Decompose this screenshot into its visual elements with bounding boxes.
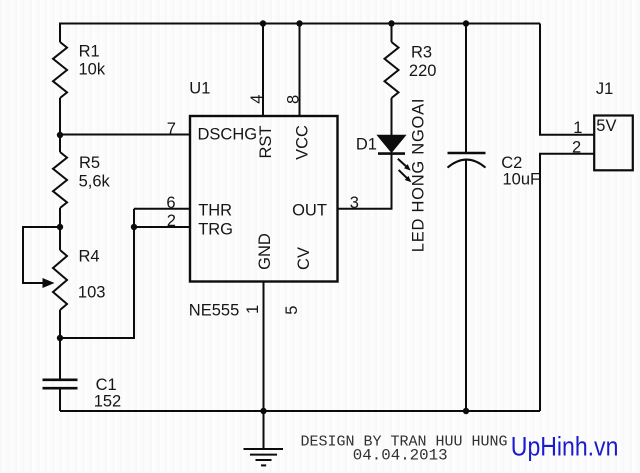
svg-text:R5: R5	[79, 154, 100, 172]
watermark UpHinh.vn	[511, 433, 619, 462]
label R5	[79, 154, 100, 172]
value 10k	[79, 60, 106, 78]
label U1	[189, 80, 210, 98]
pin name TRG	[198, 221, 233, 239]
wire THR stub pin 6	[134, 208, 190, 210]
svg-text:2: 2	[167, 212, 176, 230]
wire top rail VCC net	[60, 23, 540, 25]
label R3	[411, 43, 432, 61]
pin name OUT	[292, 202, 327, 220]
capacitor C1	[43, 380, 78, 388]
pin name DSCHG	[198, 126, 258, 144]
ground symbol stem	[263, 411, 265, 449]
svg-text:NE555: NE555	[189, 302, 239, 320]
node B junction dot wiper	[57, 224, 63, 230]
wire TRG stub pin 2	[134, 226, 190, 228]
svg-text:RST: RST	[257, 126, 275, 159]
svg-text:GND: GND	[256, 233, 274, 270]
wire C1 to bottom rail	[59, 388, 61, 411]
wire node C to TRG vertical	[60, 209, 134, 338]
svg-text:8: 8	[284, 95, 302, 104]
svg-text:3: 3	[350, 194, 359, 212]
pin number 2	[167, 212, 176, 230]
junction dot top rail R3	[388, 20, 394, 26]
wire VCC pin 8 vertical	[299, 24, 301, 117]
wire R3 to D1	[391, 98, 393, 136]
svg-text:C2: C2	[501, 154, 522, 172]
value 103	[78, 283, 106, 301]
pin name THR	[198, 201, 232, 219]
svg-text:C1: C1	[96, 376, 117, 394]
svg-text:VCC: VCC	[294, 125, 312, 160]
part name NE555	[189, 302, 239, 320]
svg-text:OUT: OUT	[292, 202, 327, 220]
wire R3 top	[391, 24, 393, 43]
caption date 04.04.2013	[353, 447, 448, 465]
svg-text:5V: 5V	[596, 117, 616, 135]
pin number 5 rotated	[283, 306, 301, 315]
capacitor C2 top plate	[448, 152, 486, 155]
svg-text:103: 103	[78, 283, 106, 301]
svg-text:1: 1	[573, 119, 582, 137]
svg-text:U1: U1	[189, 80, 210, 98]
op-amp U1 NE555 body rectangle	[190, 116, 338, 282]
ground symbol bars	[244, 449, 284, 465]
pin name VCC rotated	[294, 125, 312, 160]
svg-text:10k: 10k	[79, 60, 106, 78]
wire C2 branch top	[465, 24, 467, 153]
wire node A to pin7 DSCHG	[60, 134, 190, 136]
svg-text:DSCHG: DSCHG	[198, 126, 258, 144]
junction dot bottom rail GND pin	[260, 408, 266, 414]
pin number 2 J1	[572, 138, 581, 156]
pin number 4 rotated	[248, 95, 266, 104]
svg-text:THR: THR	[198, 201, 232, 219]
wire OUT pin 3 to LED	[338, 154, 392, 209]
pin name CV rotated	[295, 247, 313, 270]
svg-text:TRG: TRG	[198, 221, 233, 239]
svg-text:2: 2	[572, 138, 581, 156]
svg-text:04.04.2013: 04.04.2013	[353, 447, 448, 465]
resistor R3	[385, 42, 399, 98]
svg-text:4: 4	[248, 95, 266, 104]
node A junction dot DSCHG	[57, 132, 63, 138]
pin number 7	[167, 120, 176, 138]
svg-text:5: 5	[283, 306, 301, 315]
pin number 6	[166, 194, 175, 212]
svg-text:10uF: 10uF	[503, 170, 541, 188]
label C2	[501, 154, 522, 172]
wire J1 pin1 from top rail	[540, 24, 594, 135]
wire C2 to bottom rail	[465, 160, 467, 411]
svg-text:D1: D1	[356, 136, 377, 154]
diode D1 cathode bar	[378, 152, 405, 155]
svg-text:UpHinh.vn: UpHinh.vn	[511, 433, 619, 462]
wire left rail top segment	[59, 23, 61, 43]
label C1	[96, 376, 117, 394]
wire bottom rail GND net	[60, 410, 540, 412]
pin number 8 rotated	[284, 95, 302, 104]
pin name GND rotated	[256, 233, 274, 270]
svg-text:152: 152	[94, 393, 122, 411]
wire pot wiper loop	[23, 227, 60, 283]
wire RST pin 4 vertical	[262, 24, 264, 117]
label D1	[356, 136, 377, 154]
pin number 1 rotated	[244, 305, 262, 314]
pin name RST rotated	[257, 126, 275, 159]
junction dot bottom rail C2	[463, 408, 469, 414]
connector J1 body	[594, 116, 633, 171]
junction dot top rail RST	[260, 20, 266, 26]
pin number 1 J1	[573, 119, 582, 137]
wire R5 to node B	[59, 208, 61, 250]
wire GND pin 1 vertical	[263, 282, 265, 412]
node C junction dot R4 bottom	[57, 335, 63, 341]
svg-text:J1: J1	[596, 80, 613, 98]
svg-text:7: 7	[167, 120, 176, 138]
svg-text:LED HONG NGOAI: LED HONG NGOAI	[410, 98, 428, 252]
svg-text:R1: R1	[79, 42, 100, 60]
value 10uF	[503, 170, 541, 188]
wire R4 to node C	[59, 310, 61, 338]
label R4	[79, 248, 100, 266]
junction dot top rail VCC	[296, 20, 302, 26]
wire J1 pin2 to bottom rail	[540, 154, 594, 411]
resistor R1	[53, 42, 67, 98]
caption DESIGN BY TRAN HUU HUNG	[301, 434, 508, 451]
node TRG junction dot	[131, 224, 137, 230]
svg-text:220: 220	[409, 62, 437, 80]
svg-text:6: 6	[166, 194, 175, 212]
label R1	[79, 42, 100, 60]
LED emission arrow 1	[398, 159, 411, 171]
svg-text:R3: R3	[411, 43, 432, 61]
potentiometer wiper arrow head	[43, 278, 55, 288]
value 5,6k	[79, 173, 111, 191]
svg-text:CV: CV	[295, 247, 313, 270]
label LED HONG NGOAI rotated	[410, 98, 428, 252]
value 152	[94, 393, 122, 411]
label J1	[596, 80, 613, 98]
svg-text:1: 1	[244, 305, 262, 314]
resistor R5	[53, 152, 67, 208]
capacitor C2 curved bottom plate	[448, 160, 486, 168]
svg-text:5,6k: 5,6k	[79, 173, 111, 191]
svg-text:R4: R4	[79, 248, 100, 266]
resistor R4 potentiometer body	[53, 250, 67, 310]
junction dot top rail C2	[463, 20, 469, 26]
wire R1 to node A	[59, 98, 61, 152]
wire node C to C1	[59, 338, 61, 380]
value 220	[409, 62, 437, 80]
label 5V	[596, 117, 616, 135]
diode D1 LED triangle	[378, 136, 405, 153]
LED emission arrow 2	[399, 170, 412, 182]
pin number 3	[350, 194, 359, 212]
